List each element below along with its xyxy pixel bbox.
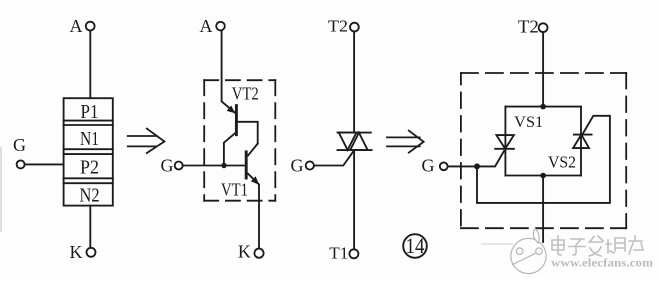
svg-text:www.elecfans.com: www.elecfans.com <box>551 258 654 270</box>
junction dot top (structure 4) <box>540 104 546 110</box>
transistor VT2 collector wire <box>224 132 236 165</box>
arrow symbol 1 (implication) <box>128 129 165 153</box>
terminal circle T2 (structure 3) <box>350 23 359 32</box>
thyristor VS2 cathode bar <box>574 134 592 136</box>
thyristor VS1 triangle <box>496 135 514 149</box>
scan artifact left edge <box>0 147 2 232</box>
transistor VT2 emitter arrow <box>227 106 236 114</box>
triac triangle (up) <box>350 133 368 151</box>
inner loop bottom wire <box>505 175 581 177</box>
svg-text:G: G <box>13 135 26 155</box>
svg-text:A: A <box>200 16 213 36</box>
watermark text 电子发烧友 <box>552 236 643 256</box>
junction line P2/N2 <box>64 177 113 179</box>
svg-text:T2: T2 <box>328 16 348 35</box>
terminal circle G (structure 3) <box>306 161 314 169</box>
figure number 14 circle <box>403 234 427 258</box>
terminal circle G (structure 4) <box>440 162 448 170</box>
junction dot G/base (structure 2) <box>221 163 226 168</box>
svg-text:G: G <box>422 155 435 175</box>
junction dot gate (structure 4) <box>474 163 480 169</box>
wire G to P2 <box>25 163 64 165</box>
wire to T1 (structure 4) <box>542 176 544 243</box>
triac bottom bar <box>338 149 372 151</box>
transistor VT1 collector wire <box>248 144 258 156</box>
junction line P1/N1 <box>64 120 113 122</box>
wire G to VT1 base <box>183 165 245 167</box>
triac triangle (down) <box>339 133 357 151</box>
inner loop right wire <box>580 107 582 176</box>
svg-text:T2: T2 <box>518 17 539 37</box>
svg-text:K: K <box>70 242 83 262</box>
transistor VT2 base lead to VT1 collector <box>238 122 258 144</box>
svg-text:G: G <box>291 155 304 175</box>
terminal circle A (structure 2) <box>216 22 225 31</box>
thyristor VS1 cathode bar <box>495 148 514 150</box>
dashed outline (two-transistor equivalent) <box>204 80 275 201</box>
svg-text:K: K <box>238 242 251 262</box>
terminal circle K (structure 1) <box>87 248 96 257</box>
wire T2 to triac <box>353 32 355 133</box>
svg-text:P2: P2 <box>80 157 99 179</box>
inner loop left wire <box>504 107 506 176</box>
four-layer stack outer box <box>64 98 113 205</box>
wire G to triac gate <box>314 150 354 165</box>
transistor VT2 emitter wire <box>222 30 236 113</box>
svg-text:N2: N2 <box>80 185 100 207</box>
scan artifact faint mark near logo <box>481 243 513 245</box>
thyristor VS1 gate wire <box>477 151 504 166</box>
svg-text:G: G <box>161 156 174 176</box>
triac top bar <box>338 132 371 134</box>
dashed outline (two-thyristor equivalent) <box>461 73 626 228</box>
svg-text:VS1: VS1 <box>514 114 543 131</box>
svg-text:P1: P1 <box>81 101 99 123</box>
wire G (structure 4) <box>448 165 477 167</box>
transistor VT1 emitter arrow <box>251 176 259 185</box>
transistor VT2 base bar <box>235 106 238 135</box>
thyristor VS2 gate wire <box>477 116 610 203</box>
transistor VT1 emitter wire <box>248 174 259 249</box>
terminal circle K (structure 2) <box>254 249 263 258</box>
terminal circle A (structure 1) <box>86 22 95 31</box>
svg-text:VT2: VT2 <box>232 83 259 103</box>
arrow symbol 2 (implication) <box>387 131 424 153</box>
svg-text:14: 14 <box>406 233 425 258</box>
svg-text:T1: T1 <box>329 244 348 263</box>
wire T2 into box <box>542 32 544 107</box>
watermark logo circle <box>511 228 546 273</box>
thyristor VS2 triangle <box>573 135 589 149</box>
terminal circle T2 (structure 4) <box>539 23 548 32</box>
terminal circle T1 (structure 3) <box>349 249 358 258</box>
wire A to stack <box>89 31 91 99</box>
wire triac to T1 <box>353 150 355 249</box>
junction line N1/P2 <box>64 148 113 150</box>
terminal circle G (structure 2) <box>175 162 183 170</box>
svg-text:VT1: VT1 <box>221 180 248 200</box>
junction dot bottom (structure 4) <box>540 173 546 179</box>
svg-text:N1: N1 <box>80 128 99 150</box>
svg-text:VS2: VS2 <box>548 153 576 172</box>
transistor VT1 base bar <box>245 152 248 178</box>
wire N2 to K <box>89 206 91 248</box>
svg-text:A: A <box>70 16 83 36</box>
terminal circle G (structure 1) <box>17 160 25 168</box>
inner loop top wire <box>505 106 581 108</box>
